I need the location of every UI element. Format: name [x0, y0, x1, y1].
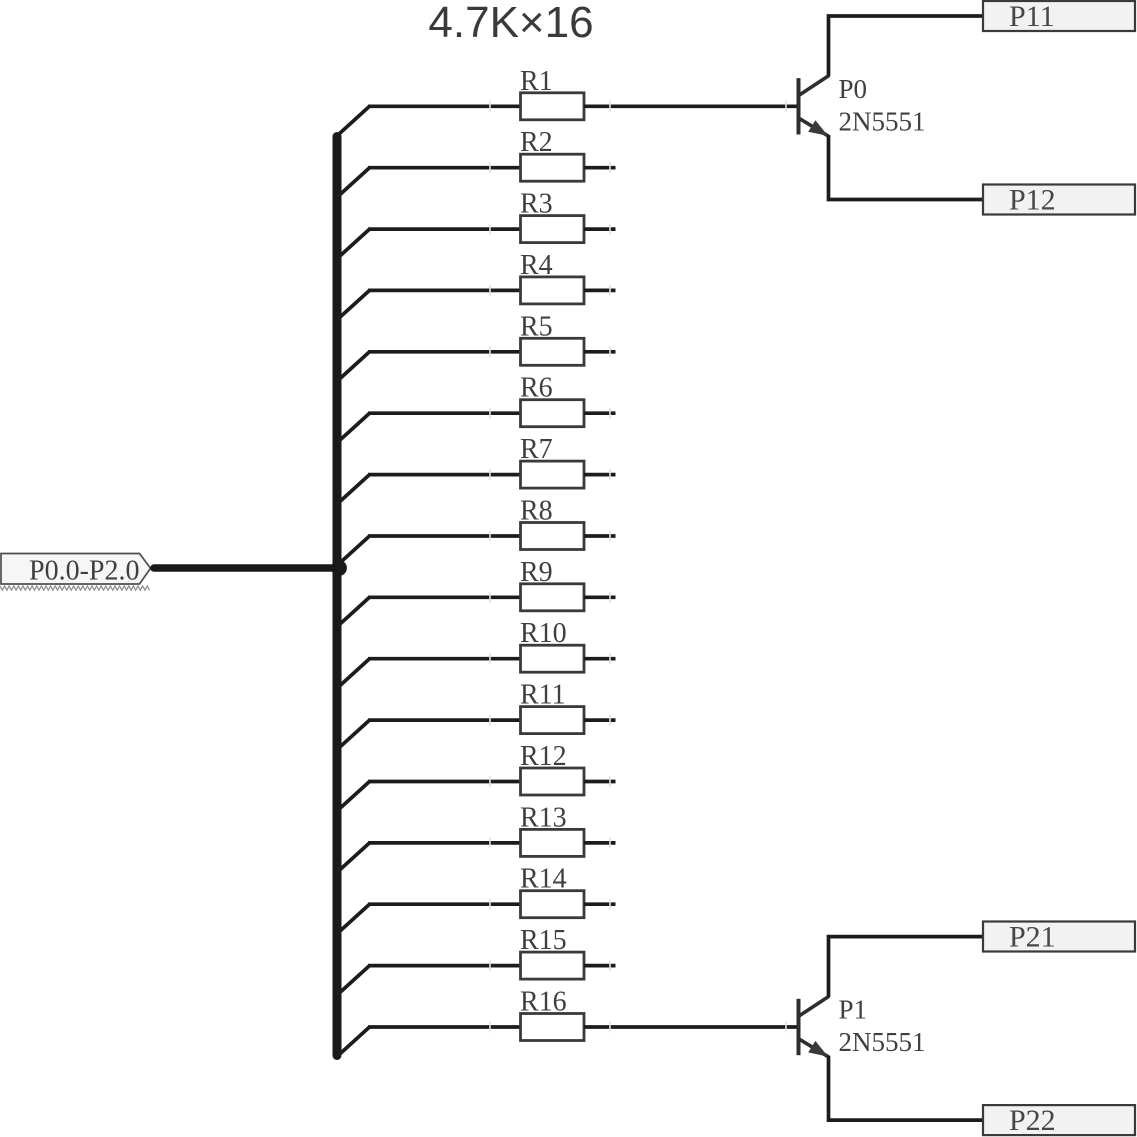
pin marker R15 pin2	[609, 960, 611, 971]
wire bus to R4 (diagonal)	[337, 290, 370, 320]
pin marker R15 pin1	[489, 960, 491, 971]
wire R9 pin2 stub	[584, 595, 616, 599]
svg-text:R3: R3	[520, 189, 553, 220]
svg-text:R11: R11	[520, 680, 566, 711]
wire bus to R13 (diagonal)	[337, 843, 370, 873]
pin marker R6 pin1	[489, 408, 491, 419]
pin marker R9 pin1	[489, 592, 491, 603]
pin marker R1 pin1	[489, 101, 491, 112]
svg-text:R4: R4	[520, 250, 553, 281]
wire P1 collector	[829, 937, 985, 997]
wire R6 pin2 stub	[584, 411, 616, 415]
pin marker R4 pin2	[609, 285, 611, 296]
wire R1 pin2 to transistor base	[584, 104, 798, 108]
pin marker R7 pin1	[489, 469, 491, 480]
wire P1 emitter	[829, 1056, 985, 1120]
svg-text:P0: P0	[839, 74, 868, 104]
resistor R11 4.7K	[520, 680, 584, 734]
wire R14 pin1 (left horizontal)	[368, 902, 522, 906]
pin marker R13 pin2	[609, 837, 611, 848]
resistor R8 4.7K	[520, 496, 584, 550]
port P21	[983, 921, 1135, 954]
pin marker R10 pin1	[489, 653, 491, 664]
wire R4 pin1 (left horizontal)	[368, 289, 522, 293]
pin marker R16 pin2	[609, 1022, 611, 1033]
wire R2 pin2 stub	[584, 166, 616, 170]
pin marker R2 pin2	[609, 162, 611, 173]
pin marker R16 pin1	[489, 1022, 491, 1033]
pin marker transistor base	[785, 1022, 787, 1033]
svg-text:R8: R8	[520, 496, 553, 527]
resistor R5 4.7K	[520, 311, 584, 365]
wire R8 pin1 (left horizontal)	[368, 534, 522, 538]
wire R7 pin2 stub	[584, 473, 616, 477]
pin marker R9 pin2	[609, 592, 611, 603]
pin marker R5 pin2	[609, 346, 611, 357]
svg-text:R1: R1	[520, 66, 553, 97]
resistor R16 4.7K	[520, 987, 584, 1041]
wire R3 pin1 (left horizontal)	[368, 227, 522, 231]
bus P0.0-P2.0 (thick vertical)	[333, 137, 342, 1056]
svg-text:R15: R15	[520, 925, 567, 956]
wire bus to R5 (diagonal)	[337, 352, 370, 382]
svg-text:R13: R13	[520, 802, 567, 833]
net label P0.0-P2.0 (pennant)	[1, 554, 151, 587]
svg-text:P22: P22	[1009, 1104, 1056, 1137]
wire R7 pin1 (left horizontal)	[368, 473, 522, 477]
resistor R9 4.7K	[520, 557, 584, 611]
pin marker R5 pin1	[489, 346, 491, 357]
wire R13 pin1 (left horizontal)	[368, 841, 522, 845]
wire bus to R10 (diagonal)	[337, 659, 370, 689]
wire R6 pin1 (left horizontal)	[368, 411, 522, 415]
wire R5 pin2 stub	[584, 350, 616, 354]
resistor R1 4.7K	[520, 66, 584, 120]
wire P0 emitter	[829, 135, 985, 199]
pin marker transistor base	[785, 101, 787, 112]
resistor R14 4.7K	[520, 864, 584, 918]
resistor R15 4.7K	[520, 925, 584, 979]
wire R13 pin2 stub	[584, 841, 616, 845]
wire R2 pin1 (left horizontal)	[368, 166, 522, 170]
pin marker R6 pin2	[609, 408, 611, 419]
port P11	[983, 0, 1135, 33]
pin marker R7 pin2	[609, 469, 611, 480]
pin marker R12 pin1	[489, 776, 491, 787]
wire R12 pin2 stub	[584, 780, 616, 784]
resistor R12 4.7K	[520, 741, 584, 795]
wire bus to R7 (diagonal)	[337, 475, 370, 505]
wire R4 pin2 stub	[584, 289, 616, 293]
pin marker R10 pin2	[609, 653, 611, 664]
wire R10 pin2 stub	[584, 657, 616, 661]
zigzag underline of net label	[0, 586, 150, 590]
resistor R10 4.7K	[520, 618, 584, 672]
wire P0 collector	[829, 16, 985, 76]
svg-text:R7: R7	[520, 434, 553, 465]
wire R16 pin1 (left horizontal)	[368, 1025, 522, 1029]
wire R11 pin2 stub	[584, 718, 616, 722]
svg-text:P12: P12	[1009, 184, 1056, 217]
wire bus to R3 (diagonal)	[337, 229, 370, 259]
resistor R7 4.7K	[520, 434, 584, 488]
svg-text:R6: R6	[520, 373, 553, 404]
wire R16 pin2 to transistor base	[584, 1025, 798, 1029]
wire P0.0-P2.0 to bus (thick horizontal)	[154, 564, 337, 572]
wire R10 pin1 (left horizontal)	[368, 657, 522, 661]
svg-text:R5: R5	[520, 311, 553, 342]
pin marker R13 pin1	[489, 837, 491, 848]
wire bus to R14 (diagonal)	[337, 904, 370, 934]
svg-text:R14: R14	[520, 864, 567, 895]
wire R5 pin1 (left horizontal)	[368, 350, 522, 354]
svg-text:P1: P1	[839, 995, 868, 1025]
svg-text:2N5551: 2N5551	[839, 1027, 926, 1057]
svg-text:P21: P21	[1009, 921, 1056, 954]
pin marker R14 pin1	[489, 899, 491, 910]
pin marker R8 pin2	[609, 531, 611, 542]
wire bus to R1 (diagonal)	[337, 106, 370, 136]
svg-text:R9: R9	[520, 557, 553, 588]
svg-text:2N5551: 2N5551	[839, 107, 926, 137]
pin marker R2 pin1	[489, 162, 491, 173]
pin marker R11 pin2	[609, 715, 611, 726]
svg-text:4.7K×16: 4.7K×16	[428, 0, 593, 47]
svg-text:R16: R16	[520, 987, 567, 1018]
wire R1 pin1 (left horizontal)	[368, 104, 522, 108]
wire bus to R9 (diagonal)	[337, 597, 370, 627]
pin marker R12 pin2	[609, 776, 611, 787]
wire R8 pin2 stub	[584, 534, 616, 538]
port P12	[983, 184, 1135, 217]
transistor P0 2N5551 (NPN)	[799, 76, 830, 137]
resistor R13 4.7K	[520, 802, 584, 856]
wire bus to R11 (diagonal)	[337, 720, 370, 750]
pin marker R3 pin1	[489, 224, 491, 235]
pin marker R11 pin1	[489, 715, 491, 726]
resistor R4 4.7K	[520, 250, 584, 304]
resistor R3 4.7K	[520, 189, 584, 243]
svg-text:R2: R2	[520, 127, 553, 158]
resistor R6 4.7K	[520, 373, 584, 427]
resistor R2 4.7K	[520, 127, 584, 181]
svg-text:R12: R12	[520, 741, 567, 772]
transistor P1 2N5551 (NPN)	[799, 996, 830, 1057]
wire bus to R16 (diagonal)	[337, 1027, 370, 1057]
wire bus to R8 (diagonal)	[337, 536, 370, 566]
pin marker R14 pin2	[609, 899, 611, 910]
port P22	[983, 1104, 1135, 1137]
junction dot on bus	[331, 560, 347, 576]
svg-text:R10: R10	[520, 618, 567, 649]
wire bus to R6 (diagonal)	[337, 413, 370, 443]
svg-text:P11: P11	[1009, 0, 1055, 33]
wire R15 pin1 (left horizontal)	[368, 964, 522, 968]
wire R15 pin2 stub	[584, 964, 616, 968]
pin marker R8 pin1	[489, 531, 491, 542]
wire R11 pin1 (left horizontal)	[368, 718, 522, 722]
wire R14 pin2 stub	[584, 902, 616, 906]
pin marker R1 pin2	[609, 101, 611, 112]
wire bus to R12 (diagonal)	[337, 782, 370, 812]
wire bus to R15 (diagonal)	[337, 966, 370, 996]
wire bus to R2 (diagonal)	[337, 168, 370, 198]
wire R9 pin1 (left horizontal)	[368, 595, 522, 599]
wire R12 pin1 (left horizontal)	[368, 780, 522, 784]
pin marker R3 pin2	[609, 224, 611, 235]
svg-text:P0.0-P2.0: P0.0-P2.0	[29, 556, 139, 587]
wire R3 pin2 stub	[584, 227, 616, 231]
pin marker R4 pin1	[489, 285, 491, 296]
